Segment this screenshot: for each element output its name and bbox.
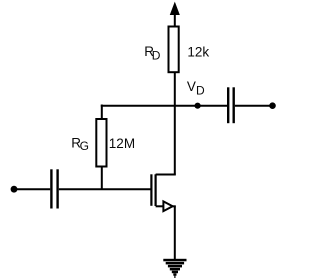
wire source drop [174,206,176,259]
wire VD horizontal [101,105,227,107]
node VD label [187,79,205,97]
wire output [235,105,270,107]
node output terminal dot [269,102,276,109]
transistor Q1 source arrow [163,201,172,211]
svg-text:D: D [152,49,161,63]
ground [163,259,186,278]
wire gate [59,188,151,190]
resistor RD [169,27,179,73]
capacitor input C1 [51,169,57,208]
transistor Q1 gate bar [150,174,152,206]
capacitor output C2 [228,87,234,123]
label RG [71,136,89,154]
node VD dot [195,103,201,109]
label RD [144,44,161,63]
wire RG bottom stub [101,167,103,191]
svg-text:12M: 12M [109,136,135,151]
transistor Q1 channel bar [155,174,157,206]
svg-text:D: D [196,83,205,97]
wire RG top stub [101,105,103,120]
wire source lead [156,205,163,207]
svg-text:G: G [80,139,89,153]
power supply VDD arrow [170,3,179,28]
wire input [15,188,50,190]
wire source to corner [173,205,176,207]
svg-text:V: V [187,79,196,94]
wire drain lead [156,174,176,176]
node input terminal dot [11,186,18,193]
svg-text:12k: 12k [187,44,209,59]
resistor RG [96,119,106,167]
wire drain rail [174,72,176,174]
